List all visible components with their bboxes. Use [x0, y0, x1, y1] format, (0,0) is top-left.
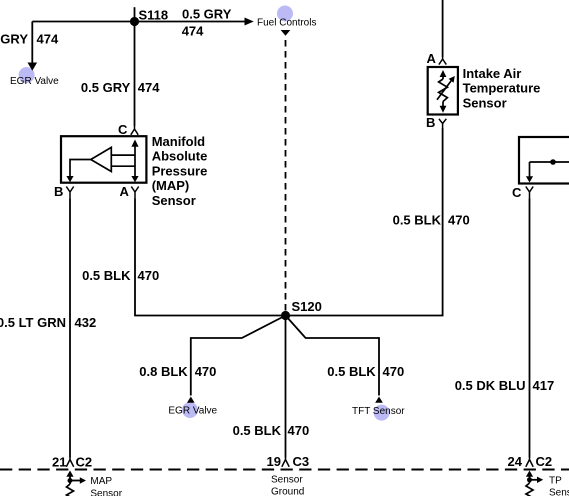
arrowhead from EGR Valve up into S120 branch [187, 397, 195, 403]
svg-text:EGR Valve: EGR Valve [10, 76, 59, 87]
label 470 (IAT ground) [448, 213, 470, 228]
svg-text:Sensor: Sensor [271, 475, 303, 486]
label 470 (TFT branch) [383, 364, 405, 379]
svg-text:S120: S120 [292, 299, 322, 314]
svg-text:C3: C3 [293, 454, 310, 469]
label 0.5 BLK (sensor ground trunk) [233, 423, 282, 438]
highlight circle on TFT Sensor link (below S120) [374, 405, 390, 421]
wire: S120 branch to EGR Valve [191, 316, 286, 396]
label 432 [75, 315, 97, 330]
label 0.5 GRY (top) [182, 7, 232, 22]
svg-text:0.5 GRY: 0.5 GRY [81, 80, 131, 95]
connector fork at MAP pin B [66, 187, 73, 199]
svg-text:19: 19 [267, 454, 281, 469]
svg-text:0.5 LT GRN: 0.5 LT GRN [0, 315, 66, 330]
svg-text:B: B [426, 115, 435, 130]
label 0.5 BLK (TFT branch) [327, 364, 376, 379]
svg-text:A: A [120, 184, 130, 199]
highlight circle on Fuel Controls link [277, 6, 293, 22]
wire: S118 down to MAP sensor pin C [134, 22, 136, 127]
svg-text:474: 474 [37, 32, 59, 47]
label TFT Sensor [352, 406, 405, 417]
pin B label (IAT) [426, 115, 435, 130]
svg-text:0.5 BLK: 0.5 BLK [327, 364, 376, 379]
arrowhead up into PCM at MAP input [66, 471, 73, 477]
connector fork at IAT pin B [439, 119, 446, 128]
connector fork at MAP pin C [131, 126, 138, 135]
svg-text:470: 470 [288, 423, 310, 438]
wire: inside IAT below zigzag [442, 102, 444, 108]
connector C2 label (left) [76, 455, 93, 470]
variable arrow through IAT resistor [437, 76, 455, 100]
svg-text:Sensor: Sensor [463, 95, 507, 110]
wire: arrow to MAP Sensor text [70, 477, 86, 483]
highlight circle on EGR Valve link (top left) [19, 67, 35, 83]
junction dot PCM MAP input [68, 478, 73, 483]
wire: top horizontal 0.5 GRY 474 from EGR branch through S118 to Fuel Controls arrow [32, 21, 246, 23]
label S118 [139, 7, 169, 22]
pin C label (TP) [512, 185, 522, 200]
wire: inside TP box horizontal [530, 161, 569, 163]
label MAP Sensor (PCM internal) [90, 476, 122, 496]
svg-text:24: 24 [508, 454, 523, 469]
svg-text:0.5 GRY: 0.5 GRY [182, 7, 232, 22]
connector C3 label [293, 454, 310, 469]
arrowhead up inside MAP box [131, 140, 138, 147]
label 470 (MAP ground) [138, 268, 160, 283]
wire: MAP pin A down then right to S120 [135, 199, 286, 316]
label 0.5 LT GRN [0, 315, 66, 330]
svg-text:C: C [118, 122, 128, 137]
arrow down from Fuel Controls into dashed wire [281, 30, 291, 36]
label 0.8 BLK [139, 364, 188, 379]
svg-text:MAP: MAP [90, 476, 112, 487]
terminal 21 label [52, 455, 66, 470]
svg-text:Sensor: Sensor [90, 489, 122, 496]
label S120 [292, 299, 322, 314]
arrowhead down to EGR Valve [28, 63, 38, 71]
svg-text:474: 474 [182, 24, 204, 39]
svg-text:Manifold: Manifold [152, 134, 205, 149]
svg-text:470: 470 [195, 364, 217, 379]
connector fork at IAT pin A [439, 57, 446, 65]
label 0.5 BLK (MAP ground) [82, 268, 131, 283]
svg-text:Pressure: Pressure [152, 163, 208, 178]
svg-text:Ground: Ground [271, 487, 304, 496]
svg-text:470: 470 [448, 213, 470, 228]
wire: S120 branch to TFT Sensor [286, 316, 380, 396]
label Fuel Controls [257, 17, 316, 28]
wire: inside IAT above zigzag [442, 75, 444, 79]
TP sensor box (partial at right edge) [519, 137, 569, 184]
wire: lower input stub [111, 165, 135, 167]
svg-text:0.5 DK BLU: 0.5 DK BLU [455, 378, 526, 393]
wire: op-amp output to pin B [70, 160, 91, 178]
label 470 (EGR branch) [195, 364, 217, 379]
svg-text:Absolute: Absolute [152, 149, 208, 164]
wire: TP pin C down to terminal 24 C2 [529, 199, 531, 458]
svg-text:TFT Sensor: TFT Sensor [352, 406, 405, 417]
wire: IAT pin B down to S120 run [286, 128, 443, 316]
label 474 (top) [182, 24, 204, 39]
label 470 (sensor ground trunk) [288, 423, 310, 438]
label EGR Valve (below S120) [168, 405, 217, 416]
arrowhead to Fuel Controls [245, 18, 254, 26]
svg-text:(MAP): (MAP) [152, 178, 190, 193]
svg-text:0.5 BLK: 0.5 BLK [233, 423, 282, 438]
dashed wire from Fuel Controls down to S120 [285, 40, 287, 313]
svg-text:B: B [54, 184, 63, 199]
svg-text:EGR Valve: EGR Valve [168, 405, 217, 416]
wire: MAP pin B down to terminal 21 C2 [69, 199, 71, 458]
svg-text:Sensor: Sensor [152, 193, 196, 208]
svg-text:21: 21 [52, 455, 66, 470]
label TP Sensor (PCM internal) [549, 476, 569, 496]
label 474 (MAP feed) [138, 80, 160, 95]
connector fork at MAP pin A [131, 187, 138, 199]
connector fork at terminal 21 [66, 458, 73, 467]
connector fork at terminal 24 [526, 458, 533, 467]
svg-text:0.5 GRY: 0.5 GRY [0, 32, 28, 47]
svg-text:S118: S118 [139, 7, 169, 22]
arrowhead down to MAP pin B inside box [66, 176, 73, 182]
connector fork at TP pin C [526, 187, 533, 199]
svg-text:TP: TP [549, 476, 562, 487]
arrowhead down to MAP pin A inside box [131, 176, 138, 182]
svg-text:Intake Air: Intake Air [463, 66, 522, 81]
wire: arrow to TP Sensor text [530, 477, 544, 483]
svg-text:C2: C2 [536, 454, 553, 469]
wire: PCM internal TP input stub [529, 476, 531, 483]
label 417 [533, 378, 555, 393]
svg-text:0.5 BLK: 0.5 BLK [393, 213, 442, 228]
wire: left branch down to EGR Valve [31, 22, 33, 63]
arrowhead down inside IAT box [440, 106, 447, 113]
node S120 junction dot [281, 311, 290, 320]
pin A label (IAT) [427, 51, 437, 66]
svg-text:470: 470 [383, 364, 405, 379]
label Intake Air Temperature Sensor [463, 66, 541, 110]
highlight circle on EGR Valve link (below S120) [182, 402, 198, 418]
arrowhead up into PCM at TP input [526, 471, 533, 477]
svg-text:0.8 BLK: 0.8 BLK [139, 364, 188, 379]
svg-text:432: 432 [75, 315, 97, 330]
label 0.5 BLK (IAT ground) [393, 213, 442, 228]
svg-text:C: C [512, 185, 522, 200]
resistor zigzag below PCM MAP input (cut at bottom) [67, 484, 74, 496]
label 474 (left branch) [37, 32, 59, 47]
op-amp U1 MAP sensor box [61, 136, 146, 183]
node S118 junction dot [130, 17, 139, 26]
connector fork at terminal 19 [282, 458, 289, 467]
resistor zigzag below PCM TP input (cut at bottom) [526, 483, 533, 496]
label GRY (cut at left edge) [0, 32, 28, 47]
junction dot inside TP box [550, 159, 556, 165]
svg-text:C2: C2 [76, 455, 93, 470]
junction dot PCM TP input [527, 477, 532, 482]
arrowhead down to TP pin C inside box [526, 176, 533, 182]
resistor zigzag inside IAT box [439, 79, 448, 102]
thermistor RT1 Intake Air Temperature Sensor box [428, 67, 458, 115]
connector C2 label (right) [536, 454, 553, 469]
wire: IAT sensor feed from top edge to pin A [442, 0, 444, 57]
terminal 24 label [508, 454, 523, 469]
arrowhead from TFT Sensor up into S120 branch [375, 397, 383, 403]
svg-text:0.5 BLK: 0.5 BLK [82, 268, 131, 283]
wire: internal right vertical (pin C to pin A) [134, 146, 136, 177]
svg-text:417: 417 [533, 378, 555, 393]
terminal 19 label [267, 454, 281, 469]
wire: inside TP box down to pin C [529, 162, 531, 177]
svg-text:Fuel Controls: Fuel Controls [257, 17, 316, 28]
label 0.5 GRY (MAP feed) [81, 80, 131, 95]
wire: upper input stub [111, 154, 135, 156]
arrowhead up inside IAT box [440, 70, 447, 77]
svg-text:A: A [427, 51, 437, 66]
pin A label (MAP) [120, 184, 130, 199]
svg-text:470: 470 [138, 268, 160, 283]
label 0.5 DK BLU [455, 378, 526, 393]
PCM boundary dashed line [0, 469, 569, 471]
svg-text:474: 474 [138, 80, 160, 95]
pin C label (MAP) [118, 122, 128, 137]
wire: PCM internal MAP input stub [69, 476, 71, 484]
pin B label (MAP) [54, 184, 63, 199]
label EGR Valve (top left) [10, 76, 59, 87]
svg-text:Sensor: Sensor [549, 488, 569, 496]
label Manifold Absolute Pressure (MAP) Sensor [152, 134, 208, 208]
wire: stub above S118 junction [134, 7, 136, 21]
svg-text:Temperature: Temperature [463, 81, 541, 96]
wire: S120 down to terminal 19 C3 [285, 316, 287, 458]
op-amp triangle inside MAP box [91, 147, 112, 171]
label Sensor Ground (PCM internal) [271, 475, 304, 496]
